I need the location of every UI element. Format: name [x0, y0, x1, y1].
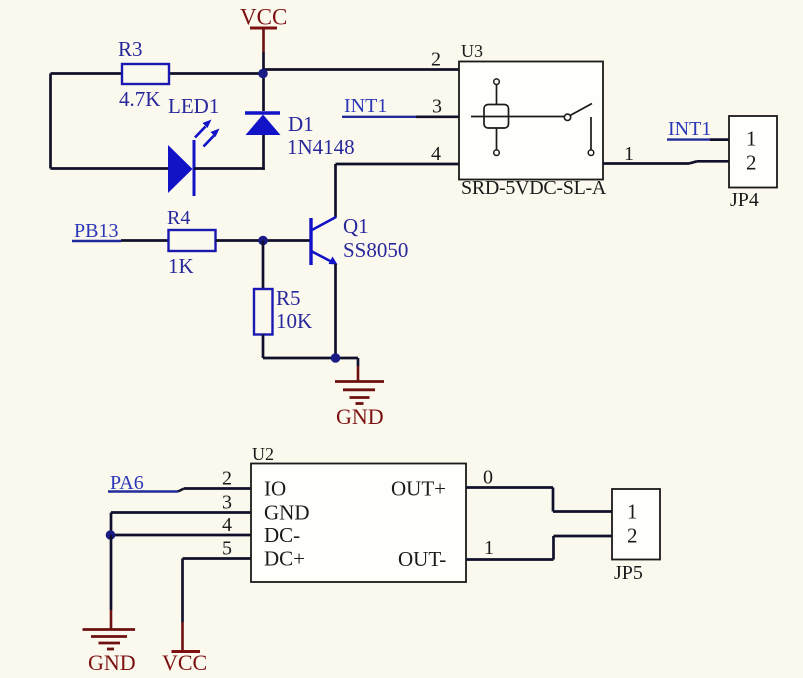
wire junction down to GND	[110, 535, 113, 610]
svg-text:OUT-: OUT-	[398, 547, 446, 571]
svg-text:1: 1	[484, 537, 494, 559]
svg-text:D1: D1	[288, 112, 314, 136]
wire OUT- to JP5 pin 2	[466, 536, 612, 560]
IC U2	[222, 444, 466, 582]
wire U3 pin 1 to JP4 pin 2	[603, 161, 729, 163]
wire R4 to Q1 base	[216, 239, 311, 242]
wire R5 bottom to ground elbow	[263, 335, 358, 367]
wire pin3 elbow down	[110, 513, 113, 536]
svg-text:GND: GND	[264, 501, 310, 525]
svg-text:GND: GND	[336, 404, 384, 429]
wire left of R3	[51, 72, 123, 75]
resistor R4	[167, 207, 216, 278]
connector JP5	[612, 489, 660, 584]
relay U3	[431, 41, 634, 199]
wire LED to D1 bottom	[194, 167, 265, 170]
svg-text:LED1: LED1	[168, 94, 219, 118]
junction node at DC-	[106, 530, 116, 540]
svg-text:VCC: VCC	[162, 650, 207, 675]
wire INT1 to U3 pin 3	[416, 115, 459, 118]
svg-text:R3: R3	[118, 37, 143, 61]
svg-text:JP5: JP5	[614, 562, 643, 584]
wire D1 vertical bottom	[262, 135, 265, 170]
wire left loop vertical	[49, 74, 52, 169]
svg-text:4.7K: 4.7K	[119, 87, 160, 111]
wire junction down to R5	[262, 241, 265, 290]
svg-text:5: 5	[222, 538, 232, 560]
svg-text:1: 1	[624, 143, 634, 165]
net label INT1	[342, 95, 416, 117]
svg-text:U3: U3	[461, 41, 483, 61]
wire INT1 to JP4 pin 1	[710, 138, 729, 141]
svg-text:IO: IO	[264, 477, 286, 501]
wire Q1 emitter down	[334, 264, 337, 358]
svg-text:R5: R5	[276, 286, 301, 310]
wire R3 to junction	[169, 72, 264, 75]
ground GND (bottom section)	[83, 610, 136, 675]
wire U2 pin 4 to left	[111, 534, 251, 537]
transistor Q1	[311, 214, 408, 265]
svg-text:U2: U2	[252, 444, 274, 464]
svg-text:INT1: INT1	[344, 95, 387, 117]
connector JP4	[729, 116, 777, 211]
wire U2 pin 3 to left	[111, 511, 251, 514]
junction node at emitter	[331, 353, 341, 363]
svg-text:1N4148: 1N4148	[287, 135, 355, 159]
svg-text:1: 1	[746, 127, 757, 151]
svg-text:2: 2	[746, 151, 757, 175]
power VCC (top)	[240, 5, 287, 53]
LED LED1	[168, 94, 220, 196]
net label PA6	[108, 472, 178, 494]
svg-text:SRD-5VDC-SL-A: SRD-5VDC-SL-A	[461, 177, 607, 199]
net label INT1 at JP4	[667, 118, 711, 140]
svg-text:DC-: DC-	[264, 523, 300, 547]
svg-text:0: 0	[483, 467, 493, 489]
svg-text:OUT+: OUT+	[391, 477, 446, 501]
wire VCC stem down to D1	[262, 52, 265, 111]
svg-text:3: 3	[222, 492, 232, 514]
wire OUT+ to JP5 pin 1	[466, 467, 612, 512]
wire PB13 to R4	[121, 239, 169, 242]
svg-text:10K: 10K	[276, 309, 312, 333]
wire junction to U3 pin 2	[264, 68, 460, 71]
resistor R3	[118, 37, 169, 111]
svg-text:SS8050: SS8050	[343, 238, 408, 262]
svg-text:4: 4	[431, 143, 441, 165]
wire bottom loop to LED	[51, 167, 170, 170]
svg-text:DC+: DC+	[264, 547, 305, 571]
svg-text:VCC: VCC	[240, 5, 287, 30]
power VCC (bottom)	[162, 622, 207, 675]
wire U2 pin 5 to VCC	[183, 559, 252, 623]
svg-text:1: 1	[627, 500, 638, 524]
svg-text:4: 4	[222, 514, 232, 536]
svg-text:JP4: JP4	[730, 189, 759, 211]
junction node at base	[258, 236, 268, 246]
junction node at VCC	[258, 69, 268, 79]
svg-text:GND: GND	[88, 650, 136, 675]
svg-text:Q1: Q1	[343, 214, 369, 238]
wire Q1 collector to U3 pin 4	[336, 164, 460, 218]
diode D1	[245, 112, 355, 159]
svg-text:1K: 1K	[168, 254, 194, 278]
relay coil	[471, 79, 564, 156]
wire PA6 to U2 pin 2	[178, 489, 251, 492]
svg-text:PB13: PB13	[74, 220, 118, 242]
svg-text:2: 2	[431, 49, 441, 71]
svg-text:3: 3	[432, 96, 442, 118]
svg-text:R4: R4	[167, 207, 190, 229]
svg-text:INT1: INT1	[668, 118, 711, 140]
svg-text:2: 2	[627, 524, 638, 548]
resistor R5	[254, 286, 312, 335]
net label PB13	[72, 220, 121, 242]
ground GND (top section)	[335, 366, 384, 429]
svg-text:2: 2	[222, 468, 232, 490]
relay switch	[564, 104, 594, 156]
